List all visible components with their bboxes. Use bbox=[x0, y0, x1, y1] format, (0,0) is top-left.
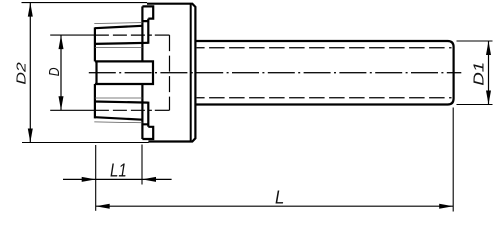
arrow L1 right (points left) bbox=[142, 177, 156, 182]
hidden line top (D feature), solid dash segment bbox=[155, 34, 170, 36]
D2 extension top bbox=[22, 2, 148, 4]
knurl rib tab top bbox=[142, 6, 153, 43]
arrow D1 bottom bbox=[486, 91, 491, 105]
shaft outline bbox=[195, 41, 453, 105]
D extension top bbox=[50, 34, 95, 36]
svg-text:L1: L1 bbox=[110, 161, 127, 181]
hidden vertical bbox=[169, 35, 171, 110]
knurl bottom thin silhouette bbox=[94, 121, 142, 124]
hidden line top (D feature), dashed part bbox=[95, 34, 152, 36]
knurl left silhouette lower bbox=[94, 84, 96, 118]
D1 extension bottom bbox=[457, 104, 493, 106]
knurl end vertical lower bbox=[141, 84, 143, 139]
L1 extension right bbox=[141, 145, 143, 185]
head flange outline bbox=[147, 4, 195, 142]
arrow D2 bottom bbox=[28, 129, 33, 143]
D2 extension bottom bbox=[22, 142, 149, 144]
flange chamfer line bbox=[190, 4, 192, 141]
arrow L left (points left) bbox=[96, 204, 110, 209]
arrow L1 left (points right) bbox=[82, 177, 96, 182]
rib 1 top edge bbox=[95, 26, 142, 28]
shaft thread dashed top bbox=[197, 47, 452, 49]
arrow D1 top bbox=[486, 41, 491, 55]
thin knurl valley line upper bbox=[95, 46, 142, 48]
knurl rib tab bottom bbox=[142, 102, 153, 139]
arrow D2 top bbox=[28, 3, 33, 17]
rib 1 bottom edge bbox=[95, 43, 148, 44]
hidden line bottom, dashed part bbox=[95, 109, 152, 111]
D extension bottom bbox=[50, 109, 95, 111]
arrow L right (points right) bbox=[439, 204, 453, 209]
center line bbox=[89, 72, 462, 74]
arrow D top bbox=[59, 35, 64, 49]
rib 2 top edge bbox=[95, 102, 148, 103]
svg-text:D2: D2 bbox=[14, 61, 29, 84]
L extension right bbox=[452, 108, 454, 212]
arrow D bottom bbox=[59, 96, 64, 110]
D2 dimension line bbox=[29, 3, 31, 143]
knurl end vertical upper bbox=[141, 6, 143, 61]
hidden line bottom, solid dash segment bbox=[155, 109, 170, 111]
L1 extension left bbox=[95, 145, 97, 211]
D1 extension top bbox=[457, 40, 493, 42]
shaft thread dashed bottom bbox=[197, 97, 452, 99]
rib 2 bottom edge bbox=[95, 117, 142, 120]
L dimension line bbox=[96, 205, 454, 207]
D dimension line bbox=[60, 35, 62, 110]
knurl left silhouette upper bbox=[94, 27, 96, 61]
svg-text:D1: D1 bbox=[470, 62, 487, 86]
thin knurl valley line lower bbox=[95, 97, 142, 99]
knurl top thin silhouette bbox=[94, 22, 142, 25]
svg-text:L: L bbox=[275, 188, 284, 208]
center rib band box bbox=[95, 61, 153, 84]
svg-text:D: D bbox=[46, 67, 63, 76]
D1 dimension line bbox=[488, 41, 490, 105]
L1 dimension line bbox=[63, 178, 172, 180]
